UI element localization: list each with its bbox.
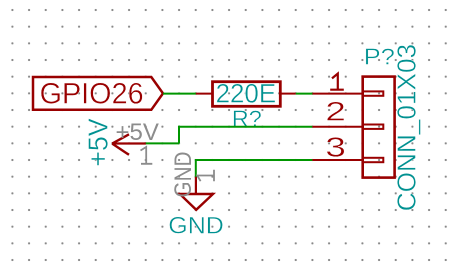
- wire: [196, 159, 313, 161]
- svg-text:P?: P?: [364, 44, 395, 70]
- value CONN_01X03: [392, 44, 422, 211]
- wire: [179, 126, 312, 128]
- svg-text:220E: 220E: [216, 78, 277, 108]
- pin name GND (grey): [170, 152, 197, 198]
- svg-text:GND: GND: [170, 152, 197, 198]
- pin number 3: [325, 132, 346, 163]
- wire: [296, 93, 313, 95]
- svg-text:CONN_01X03: CONN_01X03: [392, 44, 422, 211]
- svg-text:2: 2: [325, 97, 346, 127]
- wire: [145, 142, 180, 144]
- global label GPIO26: [33, 77, 163, 110]
- svg-text:+5V: +5V: [116, 119, 159, 146]
- power symbol GND: [180, 177, 213, 210]
- pin number 1 (grey): [141, 147, 153, 164]
- reference P?: [364, 44, 395, 70]
- pin number 1 (grey, rotated): [197, 170, 214, 181]
- wire: [178, 126, 180, 144]
- svg-text:GPIO26: GPIO26: [40, 77, 144, 110]
- pin number 2: [325, 97, 346, 127]
- reference R?: [232, 105, 262, 131]
- svg-text:+5V: +5V: [82, 118, 113, 167]
- connector P? CONN_01X03: [312, 77, 394, 178]
- svg-text:3: 3: [325, 132, 346, 163]
- value 220E: [216, 78, 277, 108]
- net name +5V: [82, 118, 113, 167]
- svg-text:GND: GND: [168, 213, 224, 240]
- wire: [195, 159, 197, 177]
- power symbol +5V: [112, 134, 146, 155]
- pin name +5V (grey): [116, 119, 159, 146]
- pin number 1: [330, 74, 344, 90]
- wire: [163, 93, 197, 95]
- resistor R?: [196, 82, 296, 107]
- net name GND: [168, 213, 224, 240]
